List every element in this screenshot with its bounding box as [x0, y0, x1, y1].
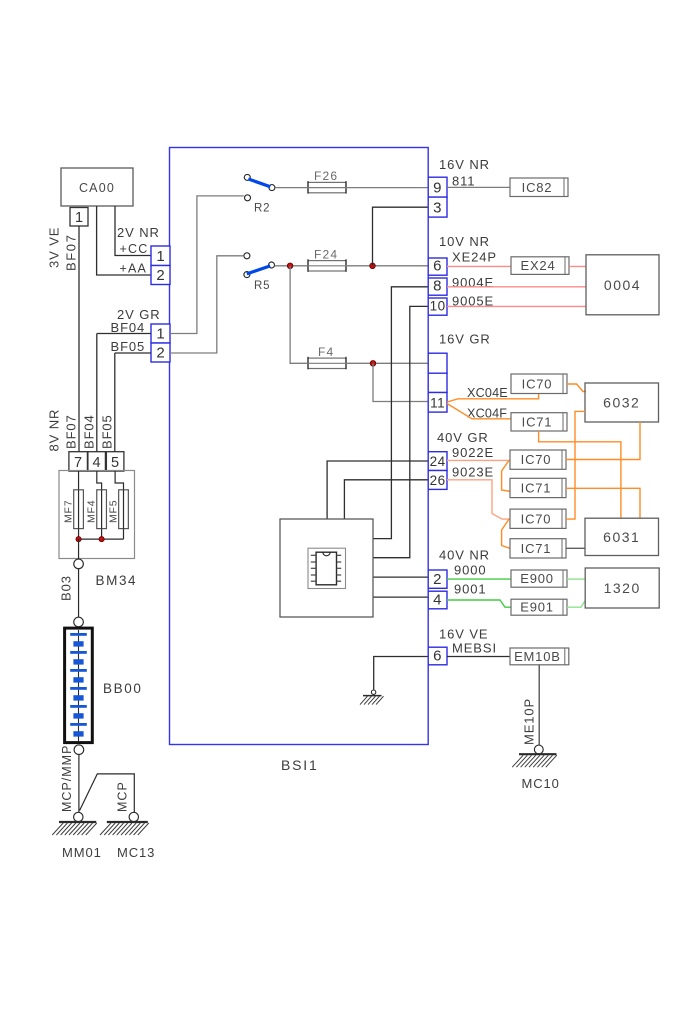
svg-text:6: 6 — [433, 647, 442, 664]
microcontroller outer box — [280, 519, 373, 617]
svg-text:2: 2 — [156, 267, 164, 284]
svg-text:9: 9 — [433, 180, 442, 197]
svg-text:ME10P: ME10P — [522, 698, 537, 745]
svg-text:IC71: IC71 — [522, 414, 553, 429]
svg-text:BM34: BM34 — [96, 573, 138, 588]
svg-text:9001: 9001 — [454, 582, 487, 597]
internal wire pin 26 to microcontroller — [344, 480, 428, 519]
svg-text:2V NR: 2V NR — [117, 225, 160, 240]
svg-text:E901: E901 — [520, 600, 554, 615]
component 6031 box — [585, 518, 659, 555]
svg-text:6: 6 — [433, 258, 442, 275]
wire branch to ground MC13 — [80, 774, 135, 812]
wire F24 to pin 6 — [346, 265, 428, 267]
svg-text:EM10B: EM10B — [514, 649, 561, 664]
svg-text:R2: R2 — [254, 203, 270, 215]
connector circle BM34 output — [74, 559, 84, 569]
wire branch down to pin 11 — [373, 363, 428, 401]
svg-text:XE24P: XE24P — [452, 250, 497, 265]
wire R2 to fuse F26 — [275, 187, 308, 189]
junction MF7 bus — [76, 537, 81, 542]
wire IC70 third to 6032 (orange) — [566, 411, 585, 519]
wire IC71 to 6031 (orange) — [539, 431, 621, 518]
svg-text:F4: F4 — [318, 345, 334, 359]
svg-text:10: 10 — [430, 299, 446, 314]
svg-text:40V GR: 40V GR — [437, 430, 489, 445]
connector IC70 first — [511, 374, 567, 394]
wire 6032 to IC70 second (orange) — [566, 422, 640, 460]
wire junction down to fuse F4 — [290, 266, 308, 364]
svg-text:811: 811 — [452, 174, 475, 189]
BM34 pin 7 — [69, 452, 88, 471]
wire CA00 to +AA pin 2 — [97, 206, 151, 275]
svg-text:2: 2 — [156, 345, 164, 362]
junction after F4 — [370, 361, 376, 367]
svg-text:+AA: +AA — [120, 262, 148, 276]
svg-text:B03: B03 — [59, 575, 74, 601]
BSI1 pin 2 — [428, 570, 447, 588]
wire BF05 vertical down to pin 5 — [114, 353, 116, 452]
IC chip symbol — [311, 552, 341, 585]
svg-text:MCP: MCP — [116, 781, 130, 812]
svg-text:BF07: BF07 — [64, 414, 79, 449]
svg-text:3: 3 — [433, 200, 442, 217]
svg-text:BF04: BF04 — [111, 320, 146, 335]
wire MCP/MMP BB00 to ground MM01 — [78, 755, 80, 813]
wire F26 to pin 9 — [346, 187, 428, 189]
svg-text:3V VE: 3V VE — [47, 227, 62, 268]
BSI1 pin 3 — [428, 197, 447, 217]
svg-text:9023E: 9023E — [452, 465, 494, 480]
wire pin 1 BF04 to relay R2 — [170, 196, 244, 334]
wire bus down to BM34 edge — [78, 539, 80, 559]
microcontroller inner frame — [308, 548, 346, 588]
component CA00 box — [61, 168, 133, 206]
BSI1 spare pin box 1 — [428, 353, 447, 373]
svg-text:R5: R5 — [254, 280, 270, 292]
wire 9023E pin 26 to IC70 (orange) — [447, 480, 510, 519]
battery BB00 cells — [70, 630, 87, 741]
svg-text:7: 7 — [74, 455, 82, 471]
wire F4 to 16V GR box — [346, 362, 428, 364]
component 6032 box — [585, 383, 659, 422]
wire BF04 vertical down to pin 4 — [96, 334, 98, 452]
connector E900 — [511, 570, 567, 587]
svg-text:XC04E: XC04E — [467, 386, 508, 400]
svg-text:IC82: IC82 — [522, 180, 553, 195]
svg-text:IC70: IC70 — [521, 511, 552, 526]
fuse MF5 — [108, 471, 129, 539]
svg-text:MCP/MMP: MCP/MMP — [60, 745, 74, 812]
BSI1 pin 4 — [428, 591, 447, 609]
wire 9022E pin 24 to IC70 (orange) — [447, 459, 510, 461]
svg-text:EX24: EX24 — [520, 258, 555, 273]
svg-text:MC13: MC13 — [117, 845, 155, 860]
ground MM01 — [74, 812, 83, 821]
svg-text:MF5: MF5 — [108, 500, 120, 523]
svg-text:1: 1 — [156, 248, 164, 265]
wire BF04 horizontal to pin 1 — [97, 333, 151, 335]
wire EM10B down to ground MC10 — [538, 665, 540, 745]
wire MEBSI pin 6 to EM10B — [447, 656, 510, 658]
connector IC82 — [510, 178, 568, 197]
svg-text:6032: 6032 — [603, 395, 640, 411]
connector IC71 third — [510, 539, 566, 558]
component BM34 box — [59, 471, 135, 559]
BSI1 pin 26 — [428, 471, 447, 490]
BSI1 pin 24 — [428, 452, 447, 471]
svg-text:BF05: BF05 — [111, 339, 146, 354]
BSI1 pin 2 (+AA) — [151, 266, 170, 285]
svg-text:16V VE: 16V VE — [439, 627, 489, 642]
fuse F4 — [308, 358, 346, 368]
wire CA00 to +CC pin 1 — [115, 206, 151, 256]
svg-text:1: 1 — [75, 210, 83, 226]
svg-text:F24: F24 — [314, 247, 338, 261]
relay contact R2 — [244, 174, 275, 200]
wire XC04E pin 11 to IC70 (orange) — [447, 394, 539, 402]
wire BF07 from CA00 pin 1 down to pin 7 — [78, 226, 80, 452]
battery BB00 box — [65, 628, 93, 743]
svg-text:8: 8 — [433, 278, 442, 295]
wire EX24 to 0004 (red) — [569, 265, 586, 267]
connector IC70 second — [510, 450, 566, 469]
BM34 pin 5 — [106, 452, 124, 471]
svg-text:16V NR: 16V NR — [439, 157, 490, 172]
wire E901 to 1320 (green) — [567, 601, 585, 608]
wire 9000 pin 2 to E900 (green) — [447, 578, 511, 580]
wire BF05 horizontal to pin 2 — [115, 352, 151, 354]
svg-text:11: 11 — [430, 396, 445, 411]
BSI1 pin 1 (BF04) — [151, 324, 170, 343]
BSI1 pin 6 — [428, 258, 447, 275]
wire XE24P pin 6 to EX24 (red) — [447, 265, 511, 267]
internal wire pin 8 to microcontroller — [373, 287, 428, 539]
svg-text:IC71: IC71 — [521, 541, 552, 556]
connector IC71 first — [511, 413, 567, 431]
svg-text:40V NR: 40V NR — [439, 548, 490, 563]
svg-text:F26: F26 — [314, 169, 338, 183]
BSI1 pin 8 — [428, 278, 447, 295]
svg-text:26: 26 — [430, 473, 446, 488]
wire 9005E pin 10 to 0004 (red) — [447, 305, 586, 307]
wire XC04F pin 11 to IC71 (orange) — [447, 404, 511, 419]
connector EX24 — [511, 257, 569, 275]
ground MC13 — [129, 812, 138, 821]
wire branch 9022E to IC71 (orange) — [502, 460, 510, 491]
connector pin 1 of CA00 — [70, 208, 88, 227]
svg-text:E900: E900 — [520, 571, 554, 586]
BSI1 pin 11 — [428, 393, 447, 413]
svg-text:5: 5 — [111, 455, 119, 471]
svg-text:BB00: BB00 — [103, 681, 142, 696]
fuse F24 — [308, 261, 346, 271]
svg-text:MF4: MF4 — [86, 500, 98, 523]
svg-text:MM01: MM01 — [62, 845, 102, 860]
BSI1 spare pin box 2 — [428, 373, 447, 392]
ground MC10 — [534, 745, 543, 754]
svg-text:9004E: 9004E — [452, 275, 494, 290]
wire pin 2 BF05 to relay R5 — [170, 256, 243, 353]
internal wire microcontroller to pin 2 — [373, 576, 428, 578]
svg-text:1: 1 — [156, 326, 164, 343]
svg-text:0004: 0004 — [604, 277, 641, 293]
svg-text:24: 24 — [430, 454, 446, 469]
BSI1 pin 9 — [428, 177, 447, 197]
wire branch up to pin 3 — [373, 207, 429, 266]
junction MF4 bus — [99, 537, 104, 542]
svg-text:BF07: BF07 — [64, 234, 79, 271]
wire 811 pin 9 to IC82 — [447, 186, 510, 188]
internal wire microcontroller to pin 4 — [373, 596, 428, 598]
svg-text:CA00: CA00 — [79, 181, 115, 195]
svg-text:IC70: IC70 — [522, 376, 553, 391]
wire 9004E pin 8 to 0004 (red) — [447, 286, 586, 288]
internal wire pin 10 to microcontroller — [373, 306, 428, 557]
svg-text:1320: 1320 — [604, 580, 641, 596]
BSI1 pin 6 MEBSI — [428, 647, 447, 665]
component 0004 box — [586, 255, 659, 315]
svg-text:MF7: MF7 — [63, 500, 75, 523]
junction to pin 3 branch — [370, 263, 376, 269]
wire R5 to fuse F24 — [275, 265, 308, 267]
wire branch 9023E to IC71 (orange) — [502, 519, 510, 548]
relay contact R5 — [244, 253, 275, 278]
svg-text:2: 2 — [433, 571, 442, 588]
connector E901 — [511, 599, 567, 615]
connector circle BB00 output — [74, 745, 84, 755]
internal wire pin 6 MEBSI to internal ground — [374, 657, 429, 690]
svg-text:6031: 6031 — [603, 529, 640, 545]
wire IC70 to 6032 (orange) — [567, 384, 586, 392]
svg-text:BF05: BF05 — [100, 414, 115, 449]
svg-text:4: 4 — [433, 591, 442, 608]
svg-text:IC71: IC71 — [521, 480, 552, 495]
wire IC71 third to 6031 (grey) — [566, 547, 585, 549]
BSI1 pin 1 (+CC) — [151, 246, 170, 266]
connector EM10B — [510, 648, 569, 665]
BSI1 pin 2 (BF05) — [151, 343, 170, 362]
wire IC71 second to 6031 (orange) — [566, 488, 640, 518]
fuse MF4 — [86, 471, 107, 539]
svg-text:9022E: 9022E — [452, 445, 494, 460]
fuse F26 — [308, 182, 346, 192]
internal ground symbol — [360, 690, 384, 705]
svg-text:9000: 9000 — [454, 563, 487, 578]
svg-text:10V NR: 10V NR — [439, 234, 490, 249]
internal wire pin 24 to microcontroller — [327, 461, 428, 519]
fuse MF7 — [63, 471, 84, 539]
connector IC70 third — [510, 509, 566, 528]
svg-text:+CC: +CC — [120, 242, 149, 256]
wire fuse output bus — [79, 538, 124, 540]
svg-text:IC70: IC70 — [521, 452, 552, 467]
svg-text:8V NR: 8V NR — [47, 409, 62, 452]
wire E900 to 1320 (green) — [567, 578, 585, 580]
wire 9001 pin 4 to E901 (green) — [447, 600, 511, 607]
junction after R5 — [287, 263, 293, 269]
wire B03 BM34 to BB00 — [78, 569, 80, 618]
svg-text:BF04: BF04 — [82, 414, 97, 449]
BSI1 unit outline box — [170, 148, 429, 745]
BSI1 pin 10 — [428, 298, 447, 315]
svg-text:MEBSI: MEBSI — [452, 641, 497, 656]
component 1320 box — [585, 568, 659, 608]
BM34 pin 4 — [88, 452, 106, 471]
svg-text:BSI1: BSI1 — [281, 757, 319, 773]
connector IC71 second — [510, 478, 566, 497]
svg-text:4: 4 — [93, 455, 101, 471]
svg-text:MC10: MC10 — [522, 776, 560, 791]
connector circle BB00 input — [74, 617, 84, 627]
svg-text:16V GR: 16V GR — [439, 332, 491, 347]
